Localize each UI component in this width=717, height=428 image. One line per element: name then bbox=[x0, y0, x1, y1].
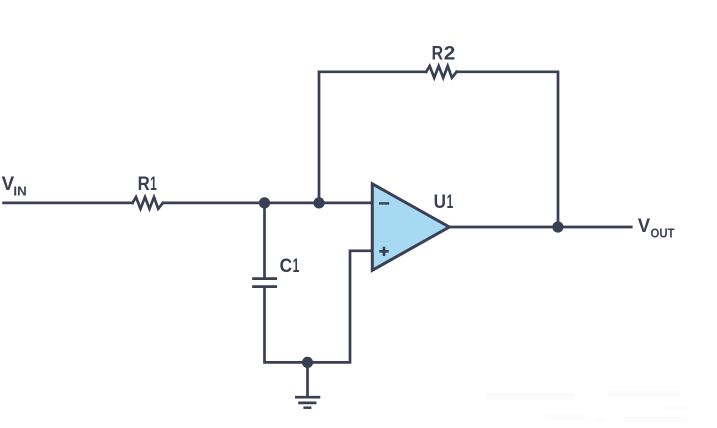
svg-text:R: R bbox=[138, 173, 150, 195]
svg-text:1: 1 bbox=[447, 191, 454, 213]
svg-text:U: U bbox=[434, 191, 446, 213]
svg-text:1: 1 bbox=[150, 173, 157, 195]
svg-text:OUT: OUT bbox=[651, 226, 675, 241]
svg-text:IN: IN bbox=[13, 183, 26, 198]
svg-text:2: 2 bbox=[444, 43, 456, 65]
svg-text:1: 1 bbox=[293, 255, 300, 277]
svg-text:V: V bbox=[638, 215, 650, 237]
svg-text:V: V bbox=[2, 173, 15, 195]
svg-text:C: C bbox=[280, 255, 292, 277]
svg-text:R: R bbox=[432, 43, 443, 65]
